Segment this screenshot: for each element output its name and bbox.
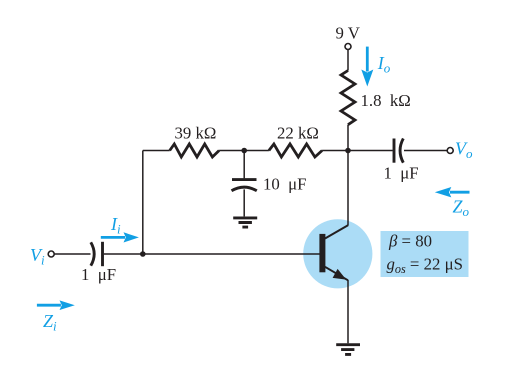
wire collector to C3 bbox=[348, 150, 393, 152]
svg-text:Ii: Ii bbox=[110, 214, 121, 237]
svg-text:39 kΩ: 39 kΩ bbox=[175, 123, 217, 142]
svg-text:Zi: Zi bbox=[43, 311, 57, 334]
svg-text:Vi: Vi bbox=[30, 245, 45, 268]
resistor R1 1.8k (drain) bbox=[341, 71, 355, 125]
svg-text:1 μF: 1 μF bbox=[81, 265, 116, 284]
node collector junction bbox=[345, 148, 351, 154]
output terminal Vo bbox=[447, 148, 453, 154]
capacitor C3 1uF output bbox=[393, 139, 396, 163]
svg-text:1 μF: 1 μF bbox=[384, 164, 419, 183]
wire R1 to collector bbox=[347, 125, 349, 226]
wire supply to R1 bbox=[347, 50, 349, 71]
ground G2 bbox=[336, 345, 360, 355]
wire input terminal to C1 bbox=[54, 253, 90, 255]
arrow Io bbox=[366, 47, 369, 72]
node input junction bbox=[140, 251, 146, 257]
wire between R2 and R3 bbox=[219, 150, 269, 152]
svg-text:10 μF: 10 μF bbox=[263, 175, 307, 194]
svg-text:β = 80: β = 80 bbox=[388, 231, 432, 250]
wire input junction up to feedback line bbox=[142, 151, 144, 255]
arrow Zo bbox=[450, 191, 470, 194]
wire R3 to collector node bbox=[322, 150, 348, 152]
capacitor C2 10uF bbox=[232, 178, 257, 181]
transistor Q1 base bar bbox=[319, 234, 325, 272]
wire emitter to ground bbox=[347, 280, 349, 343]
arrow Ii bbox=[101, 236, 125, 239]
capacitor C1 1uF input bbox=[91, 242, 94, 265]
supply terminal 9V bbox=[345, 44, 351, 50]
arrow Zi bbox=[37, 304, 61, 307]
ground G1 bbox=[233, 218, 257, 227]
wire C2 to ground bbox=[243, 189, 245, 216]
wire left segment of feedback line bbox=[143, 150, 170, 152]
resistor R3 22k bbox=[269, 144, 322, 157]
input terminal Vi bbox=[48, 251, 54, 257]
transistor Q1 emitter arrow bbox=[333, 269, 347, 280]
transistor Q1 emitter lead bbox=[325, 267, 348, 281]
svg-text:22 kΩ: 22 kΩ bbox=[277, 123, 319, 142]
transistor Q1 collector lead bbox=[325, 225, 348, 238]
wire C1 to base bbox=[104, 253, 320, 255]
wire C3 to output terminal bbox=[404, 150, 447, 152]
node feedback midpoint junction bbox=[241, 148, 247, 154]
transistor Q1 halo bbox=[303, 219, 372, 288]
parameter box bbox=[381, 231, 469, 277]
svg-text:Vo: Vo bbox=[455, 138, 473, 161]
svg-text:Zo: Zo bbox=[453, 197, 470, 220]
svg-text:1.8 kΩ: 1.8 kΩ bbox=[361, 91, 411, 110]
svg-text:Io: Io bbox=[377, 53, 391, 76]
resistor R2 39k bbox=[170, 144, 219, 157]
svg-text:9 V: 9 V bbox=[336, 24, 360, 43]
wire midpoint down to C2 bbox=[243, 151, 245, 179]
